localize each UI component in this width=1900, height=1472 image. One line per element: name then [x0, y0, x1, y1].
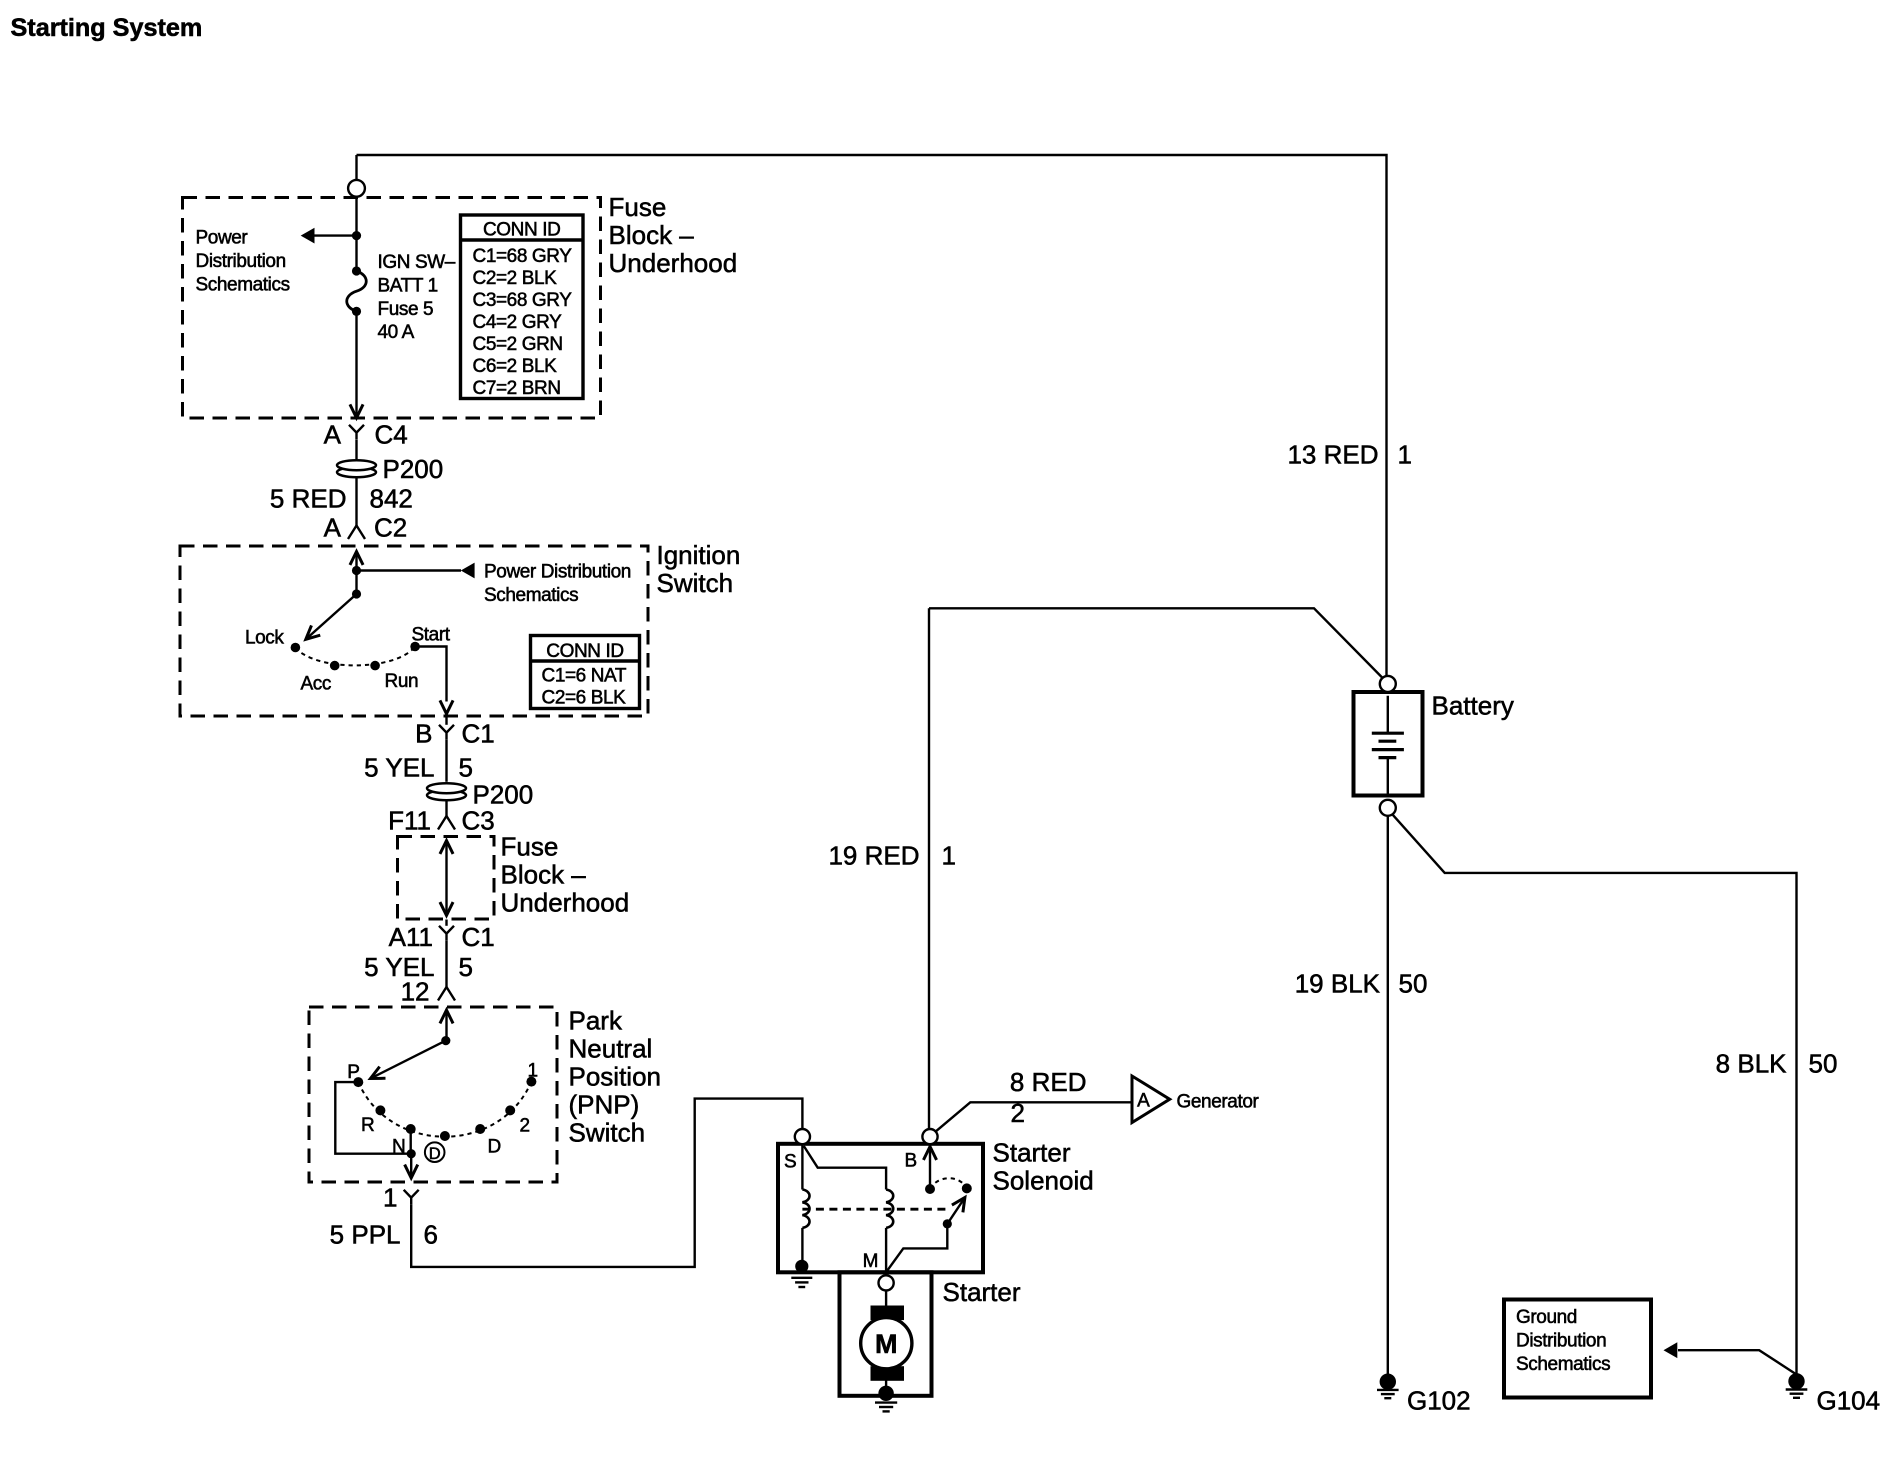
- svg-text:Solenoid: Solenoid: [993, 1166, 1094, 1196]
- svg-text:D: D: [429, 1145, 441, 1163]
- svg-text:C4=2 GRY: C4=2 GRY: [473, 312, 563, 333]
- svg-text:F11: F11: [388, 806, 431, 836]
- svg-text:8 RED: 8 RED: [1010, 1067, 1087, 1097]
- svg-text:Fuse: Fuse: [501, 832, 559, 862]
- svg-text:CONN ID: CONN ID: [546, 641, 623, 662]
- svg-text:A11: A11: [389, 922, 433, 952]
- svg-text:Neutral: Neutral: [569, 1034, 653, 1064]
- svg-text:Underhood: Underhood: [501, 888, 630, 918]
- svg-text:Start: Start: [412, 625, 451, 646]
- svg-text:A: A: [324, 513, 342, 543]
- svg-text:Schematics: Schematics: [484, 585, 578, 606]
- svg-text:8 BLK: 8 BLK: [1716, 1049, 1787, 1079]
- svg-text:Block –: Block –: [609, 220, 695, 250]
- svg-text:M: M: [875, 1329, 898, 1359]
- svg-text:C1=68 GRY: C1=68 GRY: [473, 246, 573, 267]
- svg-text:C4: C4: [375, 420, 408, 450]
- svg-text:12: 12: [401, 977, 430, 1007]
- svg-text:13 RED: 13 RED: [1287, 440, 1378, 470]
- svg-text:5 PPL: 5 PPL: [330, 1220, 401, 1250]
- svg-text:Acc: Acc: [301, 674, 331, 695]
- svg-text:P200: P200: [383, 454, 444, 484]
- svg-text:1: 1: [1398, 440, 1412, 470]
- svg-text:1: 1: [942, 841, 956, 871]
- svg-text:(PNP): (PNP): [569, 1090, 640, 1120]
- svg-text:D: D: [488, 1137, 501, 1158]
- svg-text:Switch: Switch: [657, 568, 734, 598]
- svg-text:Starting System: Starting System: [11, 14, 203, 42]
- svg-text:19 BLK: 19 BLK: [1295, 969, 1381, 999]
- svg-text:2: 2: [520, 1116, 530, 1137]
- svg-text:A: A: [1137, 1091, 1150, 1112]
- svg-text:50: 50: [1809, 1049, 1838, 1079]
- svg-text:2: 2: [1011, 1098, 1025, 1128]
- svg-text:Switch: Switch: [569, 1118, 646, 1148]
- svg-text:Starter: Starter: [993, 1138, 1071, 1168]
- svg-text:Underhood: Underhood: [609, 248, 738, 278]
- svg-text:A: A: [324, 420, 342, 450]
- svg-text:Generator: Generator: [1177, 1092, 1260, 1113]
- svg-text:19 RED: 19 RED: [828, 841, 919, 871]
- svg-text:Distribution: Distribution: [1516, 1331, 1606, 1352]
- svg-text:Ground: Ground: [1516, 1307, 1577, 1328]
- svg-text:Block –: Block –: [501, 860, 587, 890]
- svg-text:BATT 1: BATT 1: [378, 275, 438, 296]
- svg-text:C2=2 BLK: C2=2 BLK: [473, 268, 558, 289]
- svg-text:G104: G104: [1817, 1385, 1881, 1415]
- svg-text:C3: C3: [462, 806, 495, 836]
- svg-text:Run: Run: [385, 671, 419, 692]
- svg-text:Park: Park: [569, 1006, 623, 1036]
- svg-text:842: 842: [370, 484, 413, 514]
- svg-text:5 YEL: 5 YEL: [364, 753, 434, 783]
- svg-text:50: 50: [1399, 969, 1428, 999]
- svg-text:R: R: [361, 1115, 374, 1136]
- svg-text:Fuse: Fuse: [609, 192, 667, 222]
- svg-text:C6=2 BLK: C6=2 BLK: [473, 356, 558, 377]
- svg-text:Power Distribution: Power Distribution: [484, 562, 631, 583]
- svg-text:B: B: [905, 1151, 918, 1172]
- svg-text:5: 5: [459, 952, 473, 982]
- svg-text:1: 1: [528, 1061, 538, 1082]
- svg-text:6: 6: [424, 1220, 438, 1250]
- svg-text:S: S: [784, 1152, 797, 1173]
- svg-text:Starter: Starter: [943, 1277, 1021, 1307]
- svg-text:C5=2 GRN: C5=2 GRN: [473, 334, 563, 355]
- svg-text:G102: G102: [1407, 1385, 1471, 1415]
- svg-text:Schematics: Schematics: [1516, 1354, 1610, 1375]
- svg-text:40 A: 40 A: [378, 322, 415, 343]
- svg-text:IGN SW–: IGN SW–: [378, 252, 456, 273]
- svg-text:C1: C1: [462, 719, 495, 749]
- svg-text:Schematics: Schematics: [196, 275, 290, 296]
- svg-text:C1=6 NAT: C1=6 NAT: [542, 666, 627, 687]
- svg-text:C3=68 GRY: C3=68 GRY: [473, 290, 573, 311]
- svg-text:C2=6 BLK: C2=6 BLK: [542, 688, 627, 709]
- svg-text:1: 1: [383, 1183, 397, 1213]
- svg-text:Ignition: Ignition: [657, 540, 741, 570]
- svg-text:5: 5: [459, 753, 473, 783]
- svg-text:Position: Position: [569, 1062, 662, 1092]
- svg-text:C1: C1: [462, 922, 495, 952]
- svg-text:5 RED: 5 RED: [270, 484, 347, 514]
- svg-text:Battery: Battery: [1432, 691, 1514, 721]
- svg-text:Fuse 5: Fuse 5: [378, 299, 434, 320]
- svg-text:C2: C2: [374, 513, 407, 543]
- svg-text:Distribution: Distribution: [196, 251, 286, 272]
- svg-text:Lock: Lock: [245, 628, 284, 649]
- svg-text:N: N: [392, 1137, 405, 1158]
- svg-text:CONN ID: CONN ID: [483, 220, 560, 241]
- svg-text:P: P: [347, 1062, 359, 1083]
- svg-text:M: M: [863, 1251, 879, 1272]
- svg-text:Power: Power: [196, 228, 249, 249]
- svg-text:C7=2 BRN: C7=2 BRN: [473, 378, 561, 399]
- svg-text:B: B: [415, 719, 432, 749]
